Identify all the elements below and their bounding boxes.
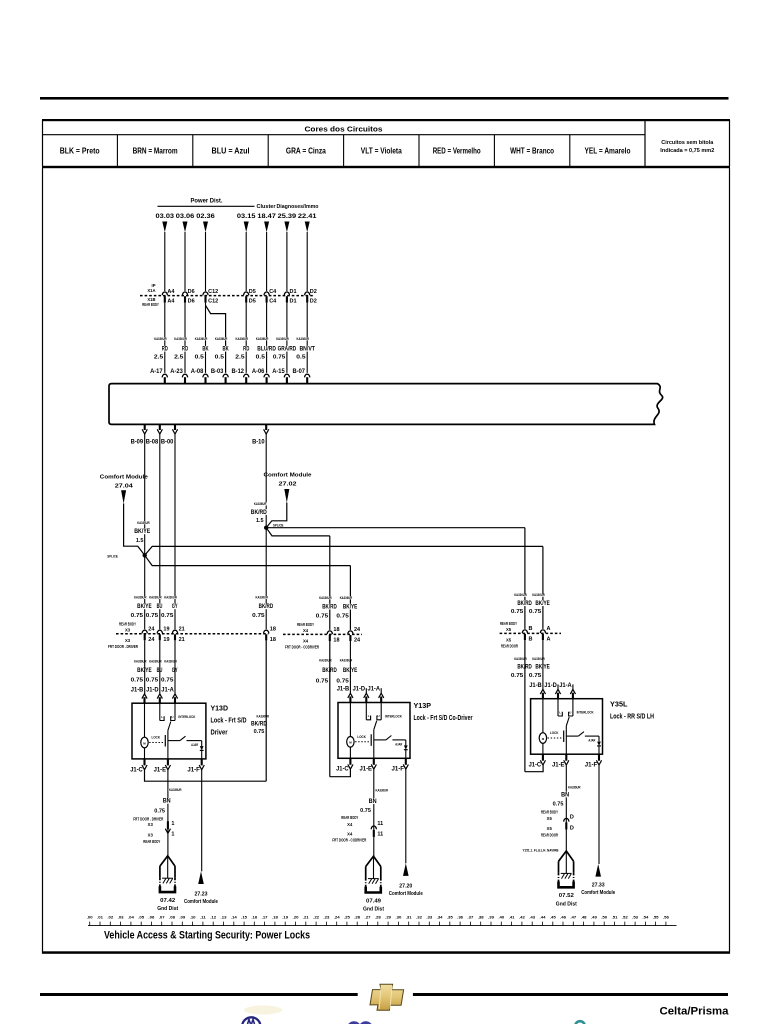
svg-text:REAR BODY: REAR BODY [500,621,517,626]
svg-text:B-00: B-00 [161,439,174,446]
svg-text:J1-B: J1-B [131,686,144,693]
svg-text:24: 24 [354,627,361,633]
svg-text:.50: .50 [601,916,607,920]
svg-text:BK: BK [223,347,230,353]
svg-text:J1-B: J1-B [337,686,350,693]
svg-text:KA336UR: KA336UR [149,596,162,600]
svg-text:AJAR: AJAR [191,743,198,747]
svg-text:BU: BU [157,604,163,610]
svg-text:0.75: 0.75 [553,801,564,807]
svg-text:Circuitos sem bitola: Circuitos sem bitola [661,140,714,146]
svg-text:.31: .31 [406,916,412,920]
svg-text:X5: X5 [547,826,553,831]
svg-text:RD: RD [162,347,169,353]
svg-text:INTERLOCK: INTERLOCK [385,715,402,719]
svg-text:REAR BODY: REAR BODY [119,622,136,627]
svg-text:.48: .48 [581,916,587,920]
svg-text:U: U [569,710,571,714]
svg-text:SPLICE: SPLICE [273,524,284,528]
svg-text:AJAR: AJAR [395,743,402,747]
svg-text:11: 11 [377,821,383,827]
svg-text:BK/RD: BK/RD [251,722,268,728]
svg-text:J1-C: J1-C [130,766,143,773]
svg-text:RD: RD [243,347,250,353]
svg-text:B-03: B-03 [211,368,224,375]
svg-text:.12: .12 [210,916,216,920]
svg-text:U: U [378,714,380,718]
svg-text:Celta/Prisma: Celta/Prisma [660,1006,730,1018]
svg-text:BK/YE: BK/YE [535,601,550,607]
svg-text:A-17: A-17 [150,368,163,375]
svg-text:.26: .26 [354,916,360,920]
svg-text:0.5: 0.5 [215,354,224,360]
svg-text:07.52: 07.52 [559,893,574,899]
svg-text:0.75: 0.75 [131,678,143,684]
svg-text:J1-D: J1-D [146,686,159,693]
svg-text:KA336UR: KA336UR [257,714,270,718]
svg-text:X3: X3 [125,627,131,632]
svg-text:.36: .36 [457,916,463,920]
svg-text:X4: X4 [347,831,353,836]
svg-text:0.75: 0.75 [273,354,285,360]
svg-text:REAR BODY: REAR BODY [297,622,314,627]
svg-text:KA336UR: KA336UR [215,337,228,341]
svg-text:1: 1 [171,832,174,838]
svg-text:03.06: 03.06 [176,213,195,220]
svg-text:Comfort Module: Comfort Module [264,472,313,478]
svg-text:J1-F: J1-F [187,766,200,773]
svg-text:J1-A: J1-A [161,686,174,693]
svg-text:.27: .27 [365,916,371,920]
svg-text:2.5: 2.5 [174,354,183,360]
svg-text:B: B [529,626,533,632]
svg-text:B-09: B-09 [131,439,144,446]
svg-text:Lock - RR S/D LH: Lock - RR S/D LH [610,714,654,721]
svg-text:KA336UR: KA336UR [134,596,147,600]
svg-text:BK/YE: BK/YE [137,604,152,610]
svg-text:A-06: A-06 [252,368,265,375]
svg-text:J1-C: J1-C [336,766,349,773]
svg-text:07.49: 07.49 [366,898,382,904]
svg-text:BK/RD: BK/RD [251,510,268,516]
svg-text:03.15: 03.15 [237,213,256,220]
svg-text:.13: .13 [221,916,227,920]
svg-text:REAR DOOR: REAR DOOR [541,832,558,837]
svg-text:REAR BODY: REAR BODY [341,815,358,820]
svg-text:X5: X5 [506,638,512,643]
svg-text:J1-E: J1-E [552,762,565,769]
svg-text:X3: X3 [148,822,154,827]
svg-text:FRT DOOR . DRIVER: FRT DOOR . DRIVER [133,817,163,822]
svg-text:KA336UR: KA336UR [164,596,177,600]
svg-text:.30: .30 [395,916,401,920]
svg-text:19: 19 [163,637,169,643]
svg-text:.06: .06 [148,916,154,920]
svg-text:1.5: 1.5 [136,538,144,544]
svg-text:BLK = Preto: BLK = Preto [60,147,100,156]
svg-text:J1-E: J1-E [360,766,373,773]
svg-text:.43: .43 [529,916,535,920]
svg-text:GRA/RD: GRA/RD [278,347,297,353]
svg-text:B-07: B-07 [293,368,306,375]
svg-text:.20: .20 [293,916,299,920]
svg-text:0.75: 0.75 [316,613,328,619]
svg-text:C4: C4 [269,299,277,305]
svg-text:KA336UR: KA336UR [340,596,353,600]
svg-text:D2: D2 [310,289,317,295]
svg-text:J1-D: J1-D [353,686,366,693]
svg-text:.24: .24 [334,916,340,920]
svg-text:0.75: 0.75 [254,729,265,735]
svg-text:B-08: B-08 [146,439,159,446]
svg-text:18: 18 [270,627,276,633]
svg-text:0.75: 0.75 [161,678,173,684]
svg-text:A-15: A-15 [272,368,285,375]
svg-text:.08: .08 [169,916,175,920]
svg-text:.54: .54 [642,916,648,920]
svg-text:SPLICE: SPLICE [107,554,118,558]
svg-text:X4: X4 [347,822,353,827]
svg-text:FRT DOOR - CODRIVER: FRT DOOR - CODRIVER [285,645,319,650]
svg-text:0.5: 0.5 [256,354,265,360]
svg-text:KA336UR: KA336UR [514,593,527,597]
svg-text:KA336UR: KA336UR [195,337,208,341]
svg-text:.46: .46 [560,916,566,920]
svg-text:.45: .45 [550,916,556,920]
svg-text:D1: D1 [290,289,297,295]
svg-text:LOCK: LOCK [357,735,366,739]
svg-text:21: 21 [179,627,185,633]
svg-text:.15: .15 [241,916,247,920]
svg-text:KA336UR: KA336UR [568,785,581,789]
svg-text:X3: X3 [125,638,131,643]
svg-text:.41: .41 [509,916,515,920]
svg-text:KA336UR: KA336UR [297,337,310,341]
svg-text:18.47: 18.47 [257,213,276,220]
svg-text:02.36: 02.36 [196,213,215,220]
svg-text:18: 18 [270,637,276,643]
svg-text:J1-F: J1-F [585,762,598,769]
svg-text:VLT = Violeta: VLT = Violeta [361,147,402,156]
svg-text:24: 24 [148,637,155,643]
svg-text:.21: .21 [303,916,309,920]
svg-text:Gnd Dist: Gnd Dist [556,901,577,907]
svg-text:0.75: 0.75 [511,609,523,615]
svg-text:BN/VT: BN/VT [299,347,315,353]
svg-text:J1-C: J1-C [529,762,542,769]
svg-text:.19: .19 [282,916,288,920]
svg-text:1.5: 1.5 [256,518,264,524]
svg-text:27.33: 27.33 [592,883,605,889]
svg-text:D: D [570,825,574,831]
svg-text:03.03: 03.03 [156,213,175,220]
svg-text:Cluster: Cluster [257,204,277,210]
svg-text:J1-A: J1-A [368,686,381,693]
svg-text:.52: .52 [622,916,628,920]
svg-text:.09: .09 [179,916,185,920]
svg-text:Y13P: Y13P [414,703,432,710]
svg-text:B-10: B-10 [252,439,265,446]
svg-text:BN: BN [369,799,377,805]
svg-text:WHT = Branco: WHT = Branco [510,147,554,156]
svg-text:KA336UR: KA336UR [174,337,187,341]
svg-text:Comfort Module: Comfort Module [581,890,615,896]
svg-text:27.23: 27.23 [195,892,208,898]
svg-text:J1-D: J1-D [544,682,557,689]
svg-text:.51: .51 [612,916,618,920]
svg-text:0.75: 0.75 [146,613,158,619]
svg-text:GRA = Cinza: GRA = Cinza [286,147,326,156]
svg-text:J1-E: J1-E [154,766,167,773]
svg-text:Diagnoses/Immo: Diagnoses/Immo [277,204,319,210]
svg-text:.29: .29 [385,916,391,920]
svg-text:BK/YE: BK/YE [343,605,358,611]
svg-text:BLU/RD: BLU/RD [257,347,276,353]
svg-text:.14: .14 [231,916,237,920]
svg-text:KA336UR: KA336UR [532,593,545,597]
svg-text:18: 18 [333,638,339,644]
svg-text:.05: .05 [138,916,144,920]
svg-text:0.75: 0.75 [131,613,143,619]
svg-text:2.5: 2.5 [154,354,163,360]
svg-text:BN: BN [561,792,569,798]
svg-text:.32: .32 [416,916,422,920]
svg-text:KA336UR: KA336UR [376,788,389,792]
svg-text:B: B [529,637,533,643]
svg-text:.35: .35 [447,916,453,920]
svg-text:FRT DOOR . DRIVER: FRT DOOR . DRIVER [108,644,138,649]
svg-text:.40: .40 [498,916,504,920]
svg-text:J1-A: J1-A [559,682,572,689]
svg-text:X5: X5 [506,627,512,632]
svg-text:0.75: 0.75 [336,679,348,685]
svg-text:A4: A4 [167,299,175,305]
svg-text:.44: .44 [540,916,546,920]
svg-text:D6: D6 [188,289,195,295]
svg-text:X4: X4 [303,628,309,633]
svg-text:X3: X3 [148,833,154,838]
svg-text:0.75: 0.75 [316,679,328,685]
svg-text:.56: .56 [663,916,669,920]
svg-text:J1-F: J1-F [392,766,405,773]
svg-text:BRN = Marrom: BRN = Marrom [133,147,178,156]
svg-text:22.41: 22.41 [298,213,317,220]
svg-text:.34: .34 [437,916,443,920]
svg-text:X4: X4 [303,639,309,644]
svg-text:YEL = Amarelo: YEL = Amarelo [585,147,631,156]
svg-text:D1: D1 [290,299,297,305]
svg-text:27.02: 27.02 [279,481,297,487]
svg-text:A-23: A-23 [170,368,183,375]
svg-text:.16: .16 [251,916,257,920]
svg-text:L: L [559,710,561,714]
svg-text:11: 11 [377,831,383,837]
svg-text:0.75: 0.75 [511,673,523,679]
svg-text:RED = Vermelho: RED = Vermelho [433,147,481,156]
svg-text:24: 24 [354,638,361,644]
svg-text:REAR BODY: REAR BODY [142,302,159,307]
svg-text:BLU = Azul: BLU = Azul [212,147,250,156]
svg-text:C12: C12 [208,289,218,295]
svg-text:BN: BN [163,799,171,805]
svg-text:0.75: 0.75 [529,673,541,679]
svg-text:0.75: 0.75 [360,808,371,814]
svg-text:19: 19 [163,627,169,633]
svg-text:INTERLOCK: INTERLOCK [577,711,594,715]
svg-text:Comfort Module: Comfort Module [389,891,423,897]
svg-text:.42: .42 [519,916,525,920]
svg-text:0.5: 0.5 [195,354,204,360]
svg-text:27.20: 27.20 [399,884,412,890]
svg-text:Y13D: Y13D [211,706,229,713]
svg-text:BK/RD: BK/RD [322,605,337,611]
svg-text:Gnd Dist: Gnd Dist [363,907,384,913]
svg-text:Indicada = 0,75 mm2: Indicada = 0,75 mm2 [660,148,714,154]
svg-text:Vehicle Access & Starting Secu: Vehicle Access & Starting Security: Powe… [104,930,310,942]
svg-text:.00: .00 [87,916,93,920]
svg-text:27.04: 27.04 [115,484,134,490]
svg-text:REAR BODY: REAR BODY [143,839,160,844]
svg-text:U: U [171,715,173,719]
svg-text:KA336UR: KA336UR [319,596,332,600]
svg-text:D6: D6 [188,299,195,305]
svg-text:KA336UR: KA336UR [137,521,150,525]
svg-text:.17: .17 [262,916,268,920]
svg-text:.25: .25 [344,916,350,920]
svg-text:Lock - Frt S/D: Lock - Frt S/D [211,718,247,725]
svg-text:BK/RD: BK/RD [517,601,532,607]
svg-text:A4: A4 [167,289,175,295]
svg-text:.18: .18 [272,916,278,920]
svg-text:.02: .02 [107,916,113,920]
svg-text:C4: C4 [269,289,277,295]
svg-text:BK: BK [202,347,209,353]
svg-text:Y35L: Y35L [610,702,628,709]
svg-text:.39: .39 [488,916,494,920]
svg-text:KA336UR: KA336UR [254,502,267,506]
svg-text:.38: .38 [478,916,484,920]
svg-text:C12: C12 [208,299,218,305]
svg-text:L: L [368,714,370,718]
svg-text:X5: X5 [547,816,553,821]
svg-text:Power Dist.: Power Dist. [191,198,223,205]
svg-text:FRT DOOR - CODRIVER: FRT DOOR - CODRIVER [332,838,366,843]
svg-text:A-08: A-08 [191,368,204,375]
svg-text:X1B: X1B [147,297,155,302]
svg-text:REAR BODY: REAR BODY [541,809,558,814]
svg-text:.04: .04 [128,916,134,920]
svg-text:0.75: 0.75 [161,613,173,619]
svg-text:J1-B: J1-B [529,682,542,689]
svg-text:.03: .03 [118,916,124,920]
svg-text:KA336UR: KA336UR [154,337,167,341]
svg-text:D5: D5 [249,289,256,295]
svg-text:18: 18 [333,627,339,633]
svg-text:KA336UR: KA336UR [236,337,249,341]
svg-text:.33: .33 [426,916,432,920]
svg-text:07.42: 07.42 [160,898,175,904]
svg-text:BK/RD: BK/RD [259,604,274,610]
svg-text:1: 1 [171,821,174,827]
svg-text:LOCK: LOCK [550,731,559,735]
svg-text:BK/YE: BK/YE [134,529,150,535]
svg-text:.23: .23 [323,916,329,920]
svg-text:KA336UR: KA336UR [169,788,182,792]
svg-text:21: 21 [179,637,185,643]
svg-text:AJAR: AJAR [588,739,595,743]
svg-text:.55: .55 [653,916,659,920]
svg-text:24: 24 [148,627,155,633]
svg-text:Driver: Driver [211,730,228,737]
svg-text:Comfort Module: Comfort Module [184,899,218,905]
svg-text:LOCK: LOCK [152,736,161,740]
svg-text:.28: .28 [375,916,381,920]
svg-text:B-12: B-12 [232,368,245,375]
svg-text:.47: .47 [570,916,576,920]
svg-text:0.5: 0.5 [296,354,305,360]
svg-text:A: A [547,637,551,643]
svg-text:0.75: 0.75 [336,613,348,619]
svg-text:D: D [570,814,574,820]
svg-text:.10: .10 [190,916,196,920]
svg-text:Gnd Dist: Gnd Dist [157,906,178,912]
svg-text:KA336UR: KA336UR [276,337,289,341]
svg-text:GY: GY [172,604,178,610]
svg-text:0.75: 0.75 [252,613,264,619]
svg-text:0.75: 0.75 [146,678,158,684]
svg-text:.01: .01 [97,916,103,920]
svg-text:Comfort Module: Comfort Module [100,475,149,481]
svg-text:2.5: 2.5 [235,354,244,360]
svg-text:.37: .37 [467,916,473,920]
svg-text:0.75: 0.75 [154,809,165,815]
svg-text:Y151.1_FL.E.LH_NAVIRB: Y151.1_FL.E.LH_NAVIRB [523,848,560,852]
svg-text:.11: .11 [200,916,206,920]
svg-text:INTERLOCK: INTERLOCK [178,715,195,719]
svg-text:A: A [547,626,551,632]
svg-text:D5: D5 [249,299,256,305]
svg-text:KA336UR: KA336UR [256,596,269,600]
svg-text:X1A: X1A [147,288,155,293]
svg-text:.22: .22 [313,916,319,920]
svg-text:REAR DOOR: REAR DOOR [501,644,518,649]
svg-text:.53: .53 [632,916,638,920]
svg-text:D2: D2 [310,299,317,305]
svg-text:Cores dos Circuitos: Cores dos Circuitos [305,125,383,134]
svg-text:KA336UR: KA336UR [256,337,269,341]
svg-text:0.75: 0.75 [529,609,541,615]
svg-text:L: L [161,715,163,719]
svg-text:.07: .07 [159,916,165,920]
svg-text:Lock - Frt S/D Co-Driver: Lock - Frt S/D Co-Driver [414,715,473,722]
svg-text:25.39: 25.39 [278,213,297,220]
svg-text:RD: RD [182,347,189,353]
svg-text:.49: .49 [591,916,597,920]
